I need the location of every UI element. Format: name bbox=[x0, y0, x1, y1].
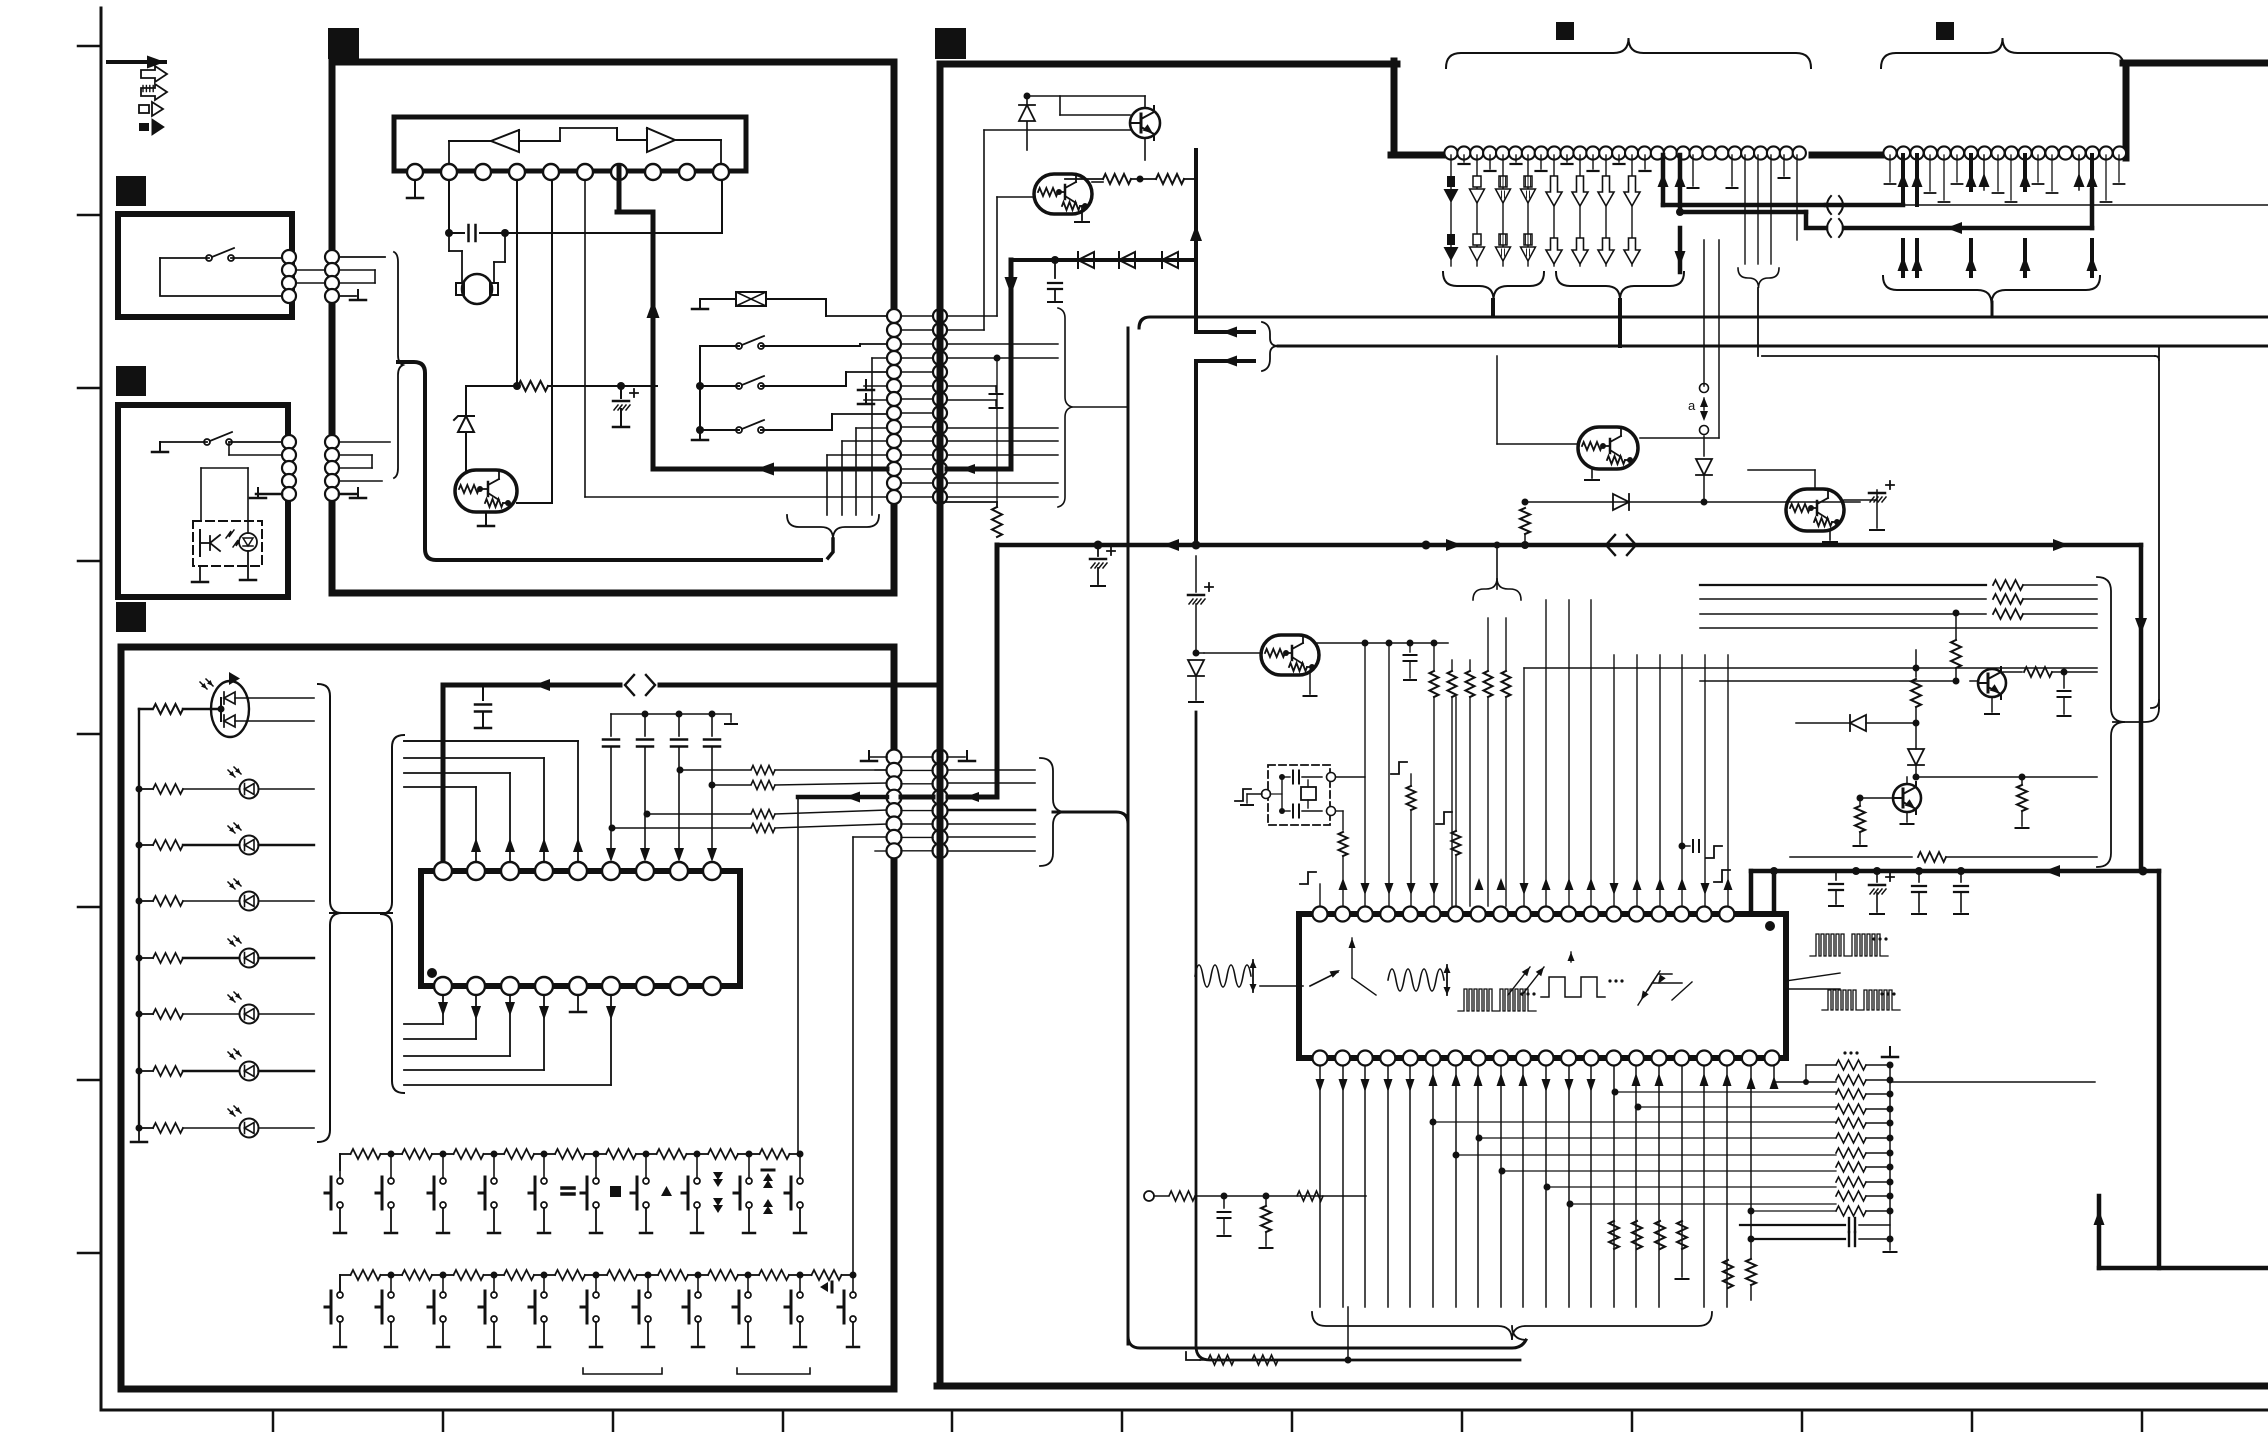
button SW1-2 bbox=[388, 1178, 394, 1184]
button SW2-4 bbox=[491, 1292, 497, 1298]
front panel box outline bbox=[121, 647, 894, 1389]
bus C ecap2 bbox=[1195, 556, 1197, 592]
button SW2-9 bbox=[745, 1292, 751, 1298]
transistor Q1 bbox=[455, 470, 517, 512]
thick bus into IC2 pin1 bbox=[441, 685, 446, 863]
connector CN-S1 circles bbox=[282, 250, 296, 264]
CN-A right brace bbox=[1058, 308, 1072, 507]
legend open arrow bbox=[141, 66, 167, 82]
brace 3wire bbox=[1738, 268, 1779, 288]
switch S2 bbox=[206, 255, 212, 261]
ecap C2 bbox=[617, 382, 625, 390]
capacitor C1 bbox=[445, 229, 453, 237]
legend solid signal arrow bbox=[108, 60, 165, 64]
caps bottom ladder bbox=[1848, 1218, 1850, 1232]
signal arrow up on pin8 wire bbox=[647, 300, 660, 318]
label square A (servo block) bbox=[328, 28, 359, 59]
thin pins down wires bbox=[1692, 155, 1694, 186]
wires to CN-A upper bbox=[826, 315, 887, 317]
button SW1-4 bbox=[491, 1178, 497, 1184]
jumper symbol o-arrows-o bbox=[1700, 384, 1709, 393]
rew-pause icon bbox=[820, 1282, 828, 1292]
bus C descender right bbox=[2139, 545, 2144, 871]
cap tap 1682 bbox=[1679, 843, 1686, 850]
IC3 glyph pwm bbox=[1458, 989, 1536, 1011]
wire p5 res bbox=[1391, 762, 1407, 774]
thick wire through CN-A bbox=[1009, 260, 1014, 469]
IC3 glyph sq bbox=[1541, 977, 1605, 997]
button SW1-1 bbox=[337, 1178, 343, 1184]
wire 1720 down bbox=[1718, 240, 1720, 438]
break symbols bbox=[1827, 196, 1843, 237]
CN-A right wires to brace bbox=[947, 343, 1058, 345]
brace CN-B right bbox=[1040, 758, 1066, 866]
row2 thin grounds bbox=[1889, 155, 1891, 182]
legend box solid arrow bbox=[139, 123, 149, 131]
button row 1 resistor chain bbox=[339, 1154, 341, 1170]
bus C ecap1 bbox=[1097, 545, 1099, 556]
transistor Q7 rr bbox=[1578, 427, 1638, 469]
zener D1 bbox=[465, 386, 467, 414]
IC3 glyph ramps bbox=[1638, 974, 1682, 1005]
IC3 glyph sine bbox=[1388, 969, 1444, 991]
resistor pair top bbox=[1103, 174, 1131, 184]
IC3 out lines right bbox=[1786, 973, 1840, 981]
PI wires bbox=[201, 467, 248, 469]
bottom input network 2 bbox=[1186, 1352, 1200, 1360]
top brace right bbox=[1881, 38, 2124, 68]
LED L5 bbox=[136, 1011, 143, 1018]
ladder row1 elbow bbox=[1806, 1064, 1836, 1066]
ground stubs right CN-A bbox=[947, 385, 996, 387]
verticals right bbox=[1613, 655, 1615, 906]
frame bottom border bbox=[101, 1409, 2268, 1412]
button SW1-8 bbox=[694, 1178, 700, 1184]
arrow bundle signals bbox=[1450, 155, 1452, 266]
IC3 box bbox=[1299, 914, 1786, 1058]
button SW2-2 bbox=[388, 1292, 394, 1298]
return wire x1196 bbox=[1196, 712, 1520, 1360]
power bus right bbox=[1751, 869, 2159, 874]
IC3 glyph switch bbox=[1260, 985, 1303, 987]
line 857 bbox=[1790, 856, 1912, 858]
button SW2-10 bbox=[797, 1292, 803, 1298]
wire pin4 down bbox=[516, 180, 518, 386]
bus break bbox=[625, 675, 634, 695]
label square E (switch block 1) bbox=[116, 176, 146, 206]
U1 buffer triangle right bbox=[647, 128, 675, 152]
pwm glyph right top bbox=[1810, 934, 1888, 956]
comp net mid bbox=[1913, 665, 1920, 672]
step glyph right IC3 bbox=[1714, 870, 1730, 882]
LED L6 bbox=[136, 1068, 143, 1075]
brace S-group bbox=[394, 252, 403, 478]
transistor Q8 rr bbox=[1786, 489, 1844, 531]
relay RL1 bbox=[736, 292, 766, 306]
CN-S2 right wires bbox=[339, 441, 390, 443]
wire Q8 top bbox=[1814, 470, 1816, 489]
collector line 640 bbox=[1317, 642, 1448, 644]
long wire A bbox=[1139, 317, 2268, 328]
CN-B grounds bbox=[869, 756, 887, 758]
ecap Q8 bbox=[1844, 499, 1877, 501]
resistor v 1916 bbox=[1915, 650, 1917, 677]
wires CN-S1 into box1 bbox=[339, 269, 375, 271]
bus C resistor up bbox=[992, 507, 1002, 537]
U1 internal top wires bbox=[448, 141, 450, 164]
brace LED group bbox=[318, 684, 342, 1142]
line 681 bbox=[1700, 680, 1956, 682]
wire A bottom corner bbox=[1128, 1336, 1148, 1348]
brace B bbox=[1262, 322, 1278, 371]
ribbon bus C path bbox=[398, 362, 821, 560]
braces under bundles bbox=[1443, 272, 1544, 300]
legend box open arrow bbox=[139, 105, 149, 113]
power caps bbox=[1835, 871, 1837, 880]
IC2 pin1 dot bbox=[427, 968, 437, 978]
main pcb box bottom bbox=[937, 1383, 2268, 1390]
wire p4 bbox=[1388, 643, 1390, 906]
two resistors bottom bbox=[1723, 1260, 1733, 1288]
transistor Q2 rr bbox=[1034, 174, 1092, 214]
pin1 step glyph bbox=[1300, 872, 1316, 884]
switch S1a bbox=[736, 343, 742, 349]
step glyph left outside bbox=[1235, 789, 1251, 801]
vertical 2159 upper bbox=[2158, 346, 2160, 708]
connector CN-S2 circles bbox=[282, 435, 296, 449]
LED L2 bbox=[136, 842, 143, 849]
box mechanism block outline bbox=[332, 62, 894, 593]
connector CN-A columns bbox=[887, 309, 901, 323]
IC3 bottom wires bbox=[1319, 1066, 1321, 1307]
button SW2-7 bbox=[645, 1292, 651, 1298]
button SW2-3 bbox=[440, 1292, 446, 1298]
pin row 2 bbox=[1883, 146, 1896, 159]
verticals mid bbox=[1545, 600, 1547, 906]
LED L1 bbox=[136, 786, 143, 793]
wire pin8 thick bbox=[617, 166, 622, 212]
button SW1-7 bbox=[643, 1178, 649, 1184]
button row 2 resistor chain bbox=[351, 1270, 381, 1280]
motor M1 bbox=[462, 274, 492, 304]
U1 buffer triangle left bbox=[491, 130, 519, 152]
IC2 bottom pins bbox=[434, 977, 452, 995]
label square G (front panel block) bbox=[116, 602, 146, 632]
crystal wires bbox=[1336, 776, 1365, 778]
line 668 corner bbox=[1524, 667, 2097, 669]
diode D5 v bbox=[1026, 96, 1028, 104]
diode below ecap2 bbox=[1188, 660, 1204, 676]
bundle stems bbox=[1491, 300, 1495, 316]
bottom input network 1 bbox=[1144, 1191, 1154, 1201]
IC U1 driver box bbox=[394, 117, 746, 171]
resistor R1 bbox=[466, 385, 517, 387]
thick wires pins 16-17 bbox=[1661, 155, 1666, 205]
button SW2-5 bbox=[541, 1292, 547, 1298]
button SW1-10 bbox=[797, 1178, 803, 1184]
button SW1-6 bbox=[593, 1178, 599, 1184]
bottom brackets bbox=[583, 1368, 662, 1374]
diode line y260 bbox=[1011, 258, 1196, 262]
legend hatched arrow bbox=[141, 84, 167, 100]
wire p3 bbox=[1364, 643, 1366, 906]
corner to lower right bbox=[2157, 871, 2162, 1268]
button SW1-9 bbox=[746, 1178, 752, 1184]
ground stubs row1 bbox=[1463, 155, 1465, 162]
bottom brace big bbox=[1312, 1312, 1712, 1340]
row2 lower arrows bbox=[1901, 240, 1905, 276]
vertical 1196 bbox=[1194, 150, 1198, 332]
wire from Q3 down bbox=[983, 130, 985, 330]
caps row above IC2 bbox=[611, 713, 731, 715]
switch S3 bbox=[204, 439, 210, 445]
transistor Q2b rr bbox=[1261, 635, 1319, 675]
photo diode pair D10 bbox=[211, 681, 249, 737]
pin row 1 bbox=[1444, 146, 1457, 159]
ground stubs CN-A mid bbox=[864, 385, 887, 387]
diode down 1707 bbox=[1703, 436, 1705, 456]
sine glyph outside bbox=[1195, 965, 1251, 987]
IC2 bottom wires bbox=[442, 995, 444, 1024]
IC3 bottom pins bbox=[1313, 1051, 1328, 1066]
small box switch block 1 bbox=[118, 214, 292, 317]
LED L7 bbox=[136, 1125, 143, 1132]
button SW2-8 bbox=[695, 1292, 701, 1298]
ladder row2 to pin21 bbox=[1774, 1081, 1836, 1083]
button SW1-5 bbox=[541, 1178, 547, 1184]
main pcb box outline bbox=[940, 64, 1397, 1386]
button SW1-3 bbox=[440, 1178, 446, 1184]
resistor v 2022 bbox=[2021, 777, 2023, 784]
label square D bbox=[1936, 22, 1954, 40]
IC3 glyph arrow up bbox=[1351, 938, 1353, 978]
resistor ladder right bbox=[1836, 1060, 1866, 1070]
small box switch block 2 bbox=[118, 405, 288, 597]
photo interrupter PI1 bbox=[193, 521, 262, 566]
wire pin down to jumper bbox=[1703, 240, 1705, 386]
resistors on wires bbox=[1609, 1221, 1619, 1249]
IC3 top pins bbox=[1313, 907, 1328, 922]
power bus C bbox=[997, 543, 2141, 548]
led feed resistor bbox=[139, 708, 152, 711]
long wire B bbox=[1278, 345, 2268, 348]
line y502 bbox=[1525, 501, 1860, 503]
brace small over res bbox=[1473, 578, 1521, 600]
vertical 997 net bbox=[994, 355, 1001, 362]
tall brace right bbox=[2097, 577, 2125, 867]
diode on y502 bbox=[1613, 494, 1629, 510]
Q5 collector net bbox=[2001, 671, 2022, 673]
IC3 pin1 dot bbox=[1765, 921, 1775, 931]
switch S1b bbox=[696, 382, 704, 390]
U1 pins bbox=[407, 164, 423, 180]
res cluster bbox=[1430, 671, 1439, 697]
IC2 wires top bbox=[404, 740, 578, 742]
bus west arrow bbox=[534, 679, 550, 691]
led column bus bbox=[138, 709, 140, 1128]
bundle brace to bus bbox=[787, 515, 879, 539]
transistor Q3 circle top bbox=[1130, 108, 1160, 138]
resistor v 1956 bbox=[1955, 613, 1957, 640]
row2 thick horiz bbox=[1826, 203, 1903, 208]
diode left line bbox=[1850, 715, 1866, 731]
cap at 1055 bbox=[1054, 260, 1056, 278]
res p7 second bbox=[1436, 812, 1452, 824]
ladder taps bbox=[1430, 1119, 1437, 1126]
svg-text:a: a bbox=[1688, 398, 1696, 413]
wire A vertical bbox=[1127, 328, 1130, 1344]
wire pin2 to cap node bbox=[448, 180, 450, 233]
row2 thick arrows bbox=[1901, 155, 1905, 205]
crystal X1 dashed box bbox=[1268, 765, 1330, 825]
arrows into IC3 top bbox=[1339, 878, 1348, 890]
three stacked resistors bbox=[1700, 584, 1986, 586]
arrow stubs into vertical bbox=[1196, 330, 1254, 334]
label square C bbox=[1556, 22, 1574, 40]
thin wires CN-A to bundle bbox=[872, 357, 887, 359]
transistor Q5 bbox=[1978, 669, 2006, 697]
button SW2-1 bbox=[337, 1292, 343, 1298]
top brace left bbox=[1446, 38, 1811, 68]
cap on bus bbox=[482, 685, 484, 700]
IC3 power wires bbox=[1749, 871, 1754, 914]
button SW2-11 bbox=[850, 1292, 856, 1298]
brace to IC2 bbox=[380, 735, 404, 1093]
wire y356 from brace3 bbox=[1762, 355, 2155, 357]
line to edge bbox=[1845, 204, 2268, 206]
transistor Q6 bbox=[1893, 784, 1921, 812]
pwm glyph right bottom bbox=[1822, 990, 1900, 1010]
label square B (main block) bbox=[935, 28, 966, 59]
line 777 to brace bbox=[1916, 776, 2022, 778]
thick wire through CN-B bbox=[901, 795, 933, 800]
IC2 top pins bbox=[434, 862, 452, 880]
LED L4 bbox=[136, 955, 143, 962]
cap 1410 bbox=[1409, 643, 1411, 652]
button SW2-6 bbox=[593, 1292, 599, 1298]
IC3 glyph ne arrows bbox=[1508, 967, 1544, 995]
IC2 box bbox=[421, 871, 740, 986]
resistor v 1525 bbox=[1522, 499, 1529, 506]
ground pin1 U1 bbox=[414, 180, 416, 196]
diode down 1916 bbox=[1908, 749, 1924, 765]
wires to buttons bbox=[797, 797, 799, 1154]
switch S1c bbox=[696, 426, 704, 434]
brace under row2 bbox=[1883, 276, 2100, 304]
LED L3 bbox=[136, 898, 143, 905]
connector CN-B columns bbox=[887, 750, 902, 765]
thick down arrow right of bundle bbox=[1678, 228, 1683, 272]
CN-B right wires bbox=[948, 769, 1035, 771]
CN-A inter wires bbox=[901, 315, 933, 317]
label square F (switch block 2) bbox=[116, 366, 146, 396]
frame left border bbox=[100, 8, 103, 1410]
bottom pins 20-21 bbox=[1750, 1066, 1752, 1258]
